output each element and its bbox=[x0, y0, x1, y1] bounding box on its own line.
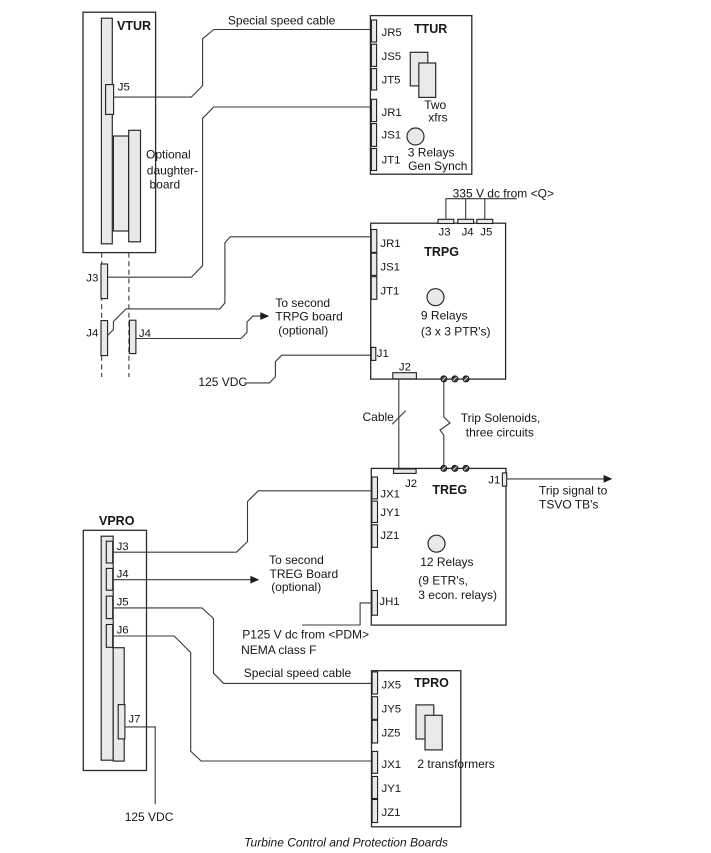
svg-text:12 Relays: 12 Relays bbox=[420, 555, 473, 569]
connector J1 (TREG right) bbox=[502, 473, 506, 486]
svg-text:JZ5: JZ5 bbox=[382, 727, 401, 739]
wire TRPG J2 to TREG J2 (cable) bbox=[398, 379, 400, 468]
svg-text:JS5: JS5 bbox=[382, 51, 402, 63]
svg-text:daughter-: daughter- bbox=[147, 163, 198, 177]
connector J7 (VPRO) bbox=[118, 705, 125, 739]
board TRPG outline bbox=[371, 223, 506, 379]
svg-text:Trip Solenoids,: Trip Solenoids, bbox=[461, 411, 541, 425]
svg-text:VPRO: VPRO bbox=[99, 514, 135, 528]
wire VTUR J5 to TTUR JR5 (special speed cable) bbox=[114, 30, 372, 98]
transformer symbol 1 (TTUR) bbox=[410, 52, 428, 86]
svg-text:Optional: Optional bbox=[146, 148, 191, 162]
svg-text:125 VDC: 125 VDC bbox=[125, 810, 174, 824]
VPRO main card bbox=[101, 536, 113, 760]
svg-text:(optional): (optional) bbox=[278, 323, 328, 337]
wire VTUR J4 left to TRPG JR1 bbox=[108, 237, 372, 336]
transformer symbol 2 (TTUR) bbox=[419, 63, 436, 97]
relay circle (TRPG) bbox=[427, 289, 444, 306]
connector J1 (TRPG) bbox=[371, 347, 376, 360]
connector JT5 (TTUR) bbox=[371, 69, 376, 90]
svg-text:three circuits: three circuits bbox=[466, 425, 534, 439]
connector JR1 (TTUR) bbox=[371, 99, 376, 121]
board TREG outline bbox=[371, 468, 506, 625]
connector JH1 (TREG) bbox=[372, 591, 378, 616]
connector J6 (VPRO) bbox=[106, 625, 112, 648]
connector JZ5 (TPRO) bbox=[372, 720, 378, 743]
svg-text:J3: J3 bbox=[117, 541, 129, 553]
svg-text:JH1: JH1 bbox=[379, 596, 399, 608]
svg-text:J3: J3 bbox=[439, 226, 451, 238]
wire VPRO J7 to 125 VDC bbox=[125, 727, 155, 804]
svg-text:JX1: JX1 bbox=[380, 489, 400, 501]
svg-text:To second: To second bbox=[269, 553, 324, 567]
wire VPRO J5 to TPRO JX5 (special speed cable) bbox=[113, 608, 372, 684]
dashed extender line right bbox=[128, 253, 130, 377]
connector JR1 (TRPG) bbox=[371, 230, 377, 253]
cable slash bbox=[392, 411, 406, 425]
svg-text:J1: J1 bbox=[377, 348, 389, 360]
svg-text:J6: J6 bbox=[117, 625, 129, 637]
svg-text:J7: J7 bbox=[128, 714, 140, 726]
VTUR daughterboard card B bbox=[129, 130, 141, 242]
VTUR main card bbox=[101, 18, 112, 244]
svg-text:(3 x 3 PTR's): (3 x 3 PTR's) bbox=[421, 324, 491, 338]
wire P125 V dc to TREG JH1 bbox=[302, 603, 372, 625]
connector J3 (VPRO) bbox=[106, 541, 112, 563]
svg-text:(9 ETR's,: (9 ETR's, bbox=[418, 574, 468, 588]
svg-text:JZ1: JZ1 bbox=[380, 530, 399, 542]
connector J2 (TRPG bottom) bbox=[393, 373, 417, 379]
svg-text:2 transformers: 2 transformers bbox=[417, 757, 494, 771]
connector J5 (VTUR) bbox=[106, 85, 114, 115]
wire VPRO J3 to TREG JX1 bbox=[113, 491, 372, 552]
svg-text:J4: J4 bbox=[117, 568, 129, 580]
svg-text:9 Relays: 9 Relays bbox=[421, 309, 468, 323]
svg-text:Trip signal to: Trip signal to bbox=[539, 483, 608, 497]
connector JR5 (TTUR) bbox=[371, 20, 376, 42]
svg-text:J5: J5 bbox=[117, 597, 129, 609]
svg-text:JX1: JX1 bbox=[382, 759, 402, 771]
svg-text:J4: J4 bbox=[86, 327, 98, 339]
svg-text:Turbine Control and Protection: Turbine Control and Protection Boards bbox=[244, 836, 448, 850]
relay circle (TTUR) bbox=[407, 128, 424, 145]
svg-text:J4: J4 bbox=[462, 226, 474, 238]
connector J2 (TREG top) bbox=[394, 469, 417, 473]
svg-text:JS1: JS1 bbox=[382, 129, 402, 141]
svg-text:(optional): (optional) bbox=[271, 580, 321, 594]
VPRO daughterboard card bbox=[113, 648, 124, 761]
svg-text:J3: J3 bbox=[86, 273, 98, 285]
wire VTUR J4 right to second TRPG board arrow bbox=[136, 316, 262, 338]
solenoid terminals TRPG bbox=[441, 376, 469, 382]
connector J5 (TRPG top) bbox=[477, 219, 493, 223]
connector JZ1 (TPRO) bbox=[372, 800, 378, 823]
connector J4 (TRPG top) bbox=[458, 219, 474, 223]
connector J4 right (VTUR cable) bbox=[129, 320, 136, 353]
wire VPRO J6 to TPRO JX1 bbox=[113, 636, 372, 761]
svg-text:JY1: JY1 bbox=[380, 507, 400, 519]
svg-text:JT5: JT5 bbox=[382, 75, 401, 87]
connector J3 (TRPG top) bbox=[438, 219, 454, 223]
svg-text:3 econ. relays): 3 econ. relays) bbox=[418, 588, 497, 602]
svg-text:J2: J2 bbox=[399, 362, 411, 374]
connector JX1 (TREG) bbox=[372, 477, 378, 499]
svg-text:125 VDC: 125 VDC bbox=[198, 375, 247, 389]
svg-text:Cable: Cable bbox=[363, 410, 395, 424]
connector J3 (VTUR cable) bbox=[101, 264, 108, 299]
svg-text:JY5: JY5 bbox=[382, 704, 402, 716]
board VPRO outline bbox=[83, 530, 146, 770]
svg-text:Special speed cable: Special speed cable bbox=[244, 666, 352, 680]
svg-text:Gen Synch: Gen Synch bbox=[408, 159, 467, 173]
svg-text:board: board bbox=[150, 177, 181, 191]
svg-text:P125 V dc from <PDM>: P125 V dc from <PDM> bbox=[242, 627, 369, 641]
board VTUR outline bbox=[83, 12, 156, 252]
svg-text:JS1: JS1 bbox=[380, 262, 400, 274]
svg-text:JZ1: JZ1 bbox=[382, 807, 401, 819]
connector JZ1 (TREG) bbox=[372, 525, 378, 548]
svg-text:JR1: JR1 bbox=[382, 107, 402, 119]
wire trip signal arrow bbox=[507, 478, 605, 480]
wire VTUR J3 to TTUR JR1 bbox=[108, 107, 372, 277]
svg-text:J2: J2 bbox=[405, 478, 417, 490]
svg-text:J1: J1 bbox=[488, 474, 500, 486]
svg-text:TTUR: TTUR bbox=[414, 22, 447, 36]
dashed extender line left bbox=[101, 253, 103, 377]
connector JT1 (TRPG) bbox=[371, 277, 377, 300]
svg-text:TRPG: TRPG bbox=[424, 245, 459, 259]
svg-text:TRPG board: TRPG board bbox=[275, 310, 342, 324]
board TTUR outline bbox=[370, 16, 471, 175]
svg-text:xfrs: xfrs bbox=[428, 110, 447, 124]
svg-text:NEMA class F: NEMA class F bbox=[241, 643, 316, 657]
wire 125 VDC to TRPG J1 bbox=[245, 355, 372, 383]
connector JT1 (TTUR) bbox=[371, 149, 376, 171]
svg-text:J5: J5 bbox=[480, 226, 492, 238]
connector JS5 (TTUR) bbox=[371, 44, 376, 66]
svg-text:TREG: TREG bbox=[432, 483, 467, 497]
svg-text:JT1: JT1 bbox=[380, 285, 399, 297]
svg-text:3 Relays: 3 Relays bbox=[408, 146, 455, 160]
svg-text:To second: To second bbox=[275, 296, 330, 310]
wire trip solenoids (zigzag) bbox=[440, 382, 450, 465]
connector JX1 (TPRO) bbox=[372, 751, 378, 773]
connector JY1 (TREG) bbox=[372, 501, 378, 522]
wire VPRO J4 to second TREG board arrow bbox=[113, 579, 252, 581]
svg-text:JY1: JY1 bbox=[382, 783, 402, 795]
board TPRO outline bbox=[372, 671, 461, 827]
transformer symbol 2 (TPRO) bbox=[425, 715, 442, 750]
VTUR daughterboard card A bbox=[113, 136, 128, 231]
connector J4 left (VTUR cable) bbox=[101, 321, 108, 356]
solenoid terminals TREG bbox=[441, 465, 469, 471]
transformer symbol 1 (TPRO) bbox=[416, 705, 434, 739]
connector JY5 (TPRO) bbox=[372, 697, 378, 720]
svg-text:J5: J5 bbox=[118, 82, 130, 94]
connector JS1 (TTUR) bbox=[371, 124, 376, 147]
svg-text:TREG Board: TREG Board bbox=[270, 567, 339, 581]
svg-text:TPRO: TPRO bbox=[414, 676, 449, 690]
svg-text:VTUR: VTUR bbox=[117, 19, 151, 33]
relay circle (TREG) bbox=[428, 535, 445, 552]
svg-text:Special speed cable: Special speed cable bbox=[228, 14, 336, 28]
connector JY1 (TPRO) bbox=[372, 777, 378, 799]
svg-text:JR5: JR5 bbox=[382, 27, 402, 39]
svg-text:JR1: JR1 bbox=[380, 238, 400, 250]
connector J4 (VPRO) bbox=[106, 568, 112, 590]
connector JX5 (TPRO) bbox=[372, 672, 378, 694]
svg-text:JX5: JX5 bbox=[382, 679, 402, 691]
connector J5 (VPRO) bbox=[106, 596, 112, 619]
svg-text:JT1: JT1 bbox=[382, 154, 401, 166]
connector JS1 (TRPG) bbox=[371, 253, 377, 275]
wire 335V bus bbox=[446, 199, 517, 220]
svg-text:TSVO TB's: TSVO TB's bbox=[539, 498, 598, 512]
